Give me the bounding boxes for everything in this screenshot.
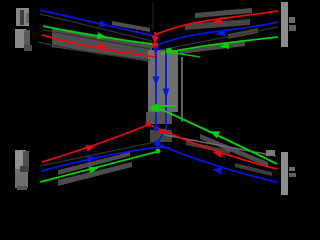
- edge red TJ->TR: [155, 11, 278, 35]
- grey label smudge below blue BL: [58, 152, 130, 175]
- edge blue BJ->BR: [157, 144, 277, 182]
- blue vertical V1 TJ->BJ: [155, 38, 157, 131]
- edge green TJ->TR: [161, 37, 278, 54]
- arrowhead red BR: [212, 150, 222, 157]
- edge blue TJ->TR: [158, 22, 278, 45]
- arrowhead red TL: [97, 42, 106, 49]
- node dot blue BJ2: [154, 140, 160, 146]
- arrowhead green TR: [219, 42, 229, 49]
- grey patches bottom junction: [146, 112, 172, 124]
- arrowhead green BL: [89, 167, 99, 174]
- arrowhead red TJ vertical down: [152, 36, 159, 44]
- grey label smudge above blue TL: [112, 21, 150, 32]
- edge blue BL->BJ: [41, 147, 170, 171]
- green node blob BJ: [149, 103, 159, 113]
- edge blue TL->TJ: [40, 10, 154, 36]
- node dot red BJ: [145, 121, 150, 126]
- grey label smudge above green BR mid: [186, 141, 230, 154]
- grey label smudge below green TR: [180, 41, 245, 54]
- blue vertical V2 TJ->BJ: [165, 49, 167, 130]
- grey label smudge above red TR: [195, 8, 252, 18]
- arrowhead blue BR: [212, 167, 222, 174]
- blue bend V2 to BJ node: [157, 128, 166, 144]
- node dot green BL end: [156, 149, 161, 154]
- faint dark companion edge TL 2: [43, 30, 150, 49]
- arrowhead blue V1 down: [153, 77, 160, 86]
- node label BL backdrop: [15, 150, 29, 190]
- node label TL backdrop: [15, 8, 32, 51]
- edge red BJ->BR: [150, 125, 277, 169]
- faint dark companion edge TR: [160, 27, 278, 50]
- grey label smudge below red BR: [235, 163, 272, 176]
- arrowhead blue TL: [99, 20, 109, 27]
- node label TR bar: [281, 2, 296, 47]
- arrowhead green TL: [97, 32, 106, 39]
- node dot green TJ: [166, 48, 172, 54]
- arrowhead blue V2 down: [163, 89, 170, 98]
- grey vertical edge from TR label to bottom junction: [181, 57, 183, 122]
- node dot red TJ: [152, 43, 158, 48]
- faint dark companion edge BL: [40, 142, 155, 166]
- grey label smudge below green BL: [58, 162, 132, 186]
- grey label smudge below green BR: [200, 134, 268, 167]
- arrowhead blue BL: [87, 156, 97, 163]
- red vertical in top junction: [154, 32, 156, 55]
- grey middle box: [148, 50, 178, 112]
- node dot blue TJ: [153, 46, 158, 51]
- edge red BL->BJ: [42, 124, 150, 162]
- edge green BL->BJ: [40, 151, 160, 182]
- node dot red BJ2: [160, 129, 166, 134]
- node label BR bar: [281, 152, 296, 195]
- grey label smudge wedge TL: [52, 27, 152, 62]
- green stub strand in top junction: [169, 52, 200, 57]
- edge red TL->TJ: [42, 35, 156, 57]
- faint dark companion edge TL 3: [38, 42, 150, 60]
- green tail at BJ node: [158, 105, 176, 107]
- arrowhead red TR: [212, 17, 222, 24]
- faint dark vertical above top junction: [152, 2, 154, 30]
- edge green TL->TJ: [43, 26, 152, 44]
- arrowhead green BR: [210, 131, 220, 138]
- grey label smudge between blue and green TR right: [228, 28, 258, 39]
- arrowhead red BL: [86, 145, 96, 152]
- node dot blue BJ: [153, 125, 158, 130]
- grey blob left of BR bar: [266, 150, 275, 156]
- arrowhead blue TR: [215, 29, 225, 36]
- edge green BJ->BR: [158, 108, 277, 164]
- faint dark companion edge TL 1: [40, 14, 152, 41]
- grey label smudge between red and blue TR: [185, 19, 250, 30]
- faint dark companion edge BR: [165, 135, 276, 156]
